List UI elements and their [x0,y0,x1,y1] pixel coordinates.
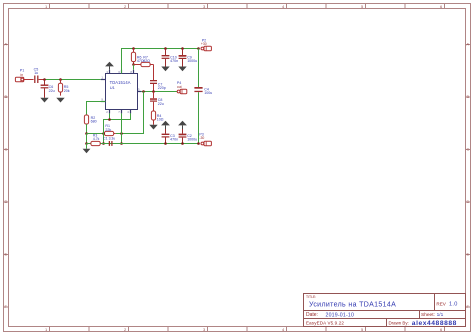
ground below R2 chain [83,149,91,153]
wire P1 to C5 [24,79,34,81]
pin 5 right output [138,91,142,93]
svg-text:1u: 1u [34,71,38,75]
node rail corner at P2 [197,47,200,50]
svg-text:10Ω: 10Ω [157,118,164,122]
capacitor C4 [194,87,202,92]
resistor R7 [134,62,154,66]
frame zone ticks bottom [50,327,445,332]
connector P3 [201,141,211,145]
svg-text:22u: 22u [49,89,55,93]
connector P1 [15,77,23,81]
node input at C6 [43,78,46,81]
svg-text:REV: REV [436,301,446,306]
node pin2 joins staircase [108,118,111,121]
node C9 on rail [181,47,184,50]
capacitor C3 [162,129,170,144]
wire pin7 drop to -rail [121,113,123,143]
svg-text:+30: +30 [201,42,207,46]
frame zone ticks right [466,45,471,308]
wire R2 node to -rail [86,134,88,144]
svg-text:TITLE:: TITLE: [306,295,316,299]
frame zone letters right [467,42,470,310]
svg-text:22k: 22k [105,128,111,132]
node -rail corner at P3 [197,142,200,145]
node input at R5 [59,78,62,81]
node output feedback tap [142,90,145,93]
pin 2 bottom left [109,110,111,114]
svg-text:E: E [467,252,470,257]
wire feedback R2 to R1 [87,133,105,135]
frame zone letters left [5,42,8,310]
wire +V rail [122,49,199,74]
pin 9 left lower [101,101,106,103]
wire input node to U1 pin 1 [45,79,101,81]
svg-text:100u: 100u [204,91,212,95]
wire U1 output to P4 [141,91,177,93]
svg-text:220p: 220p [158,86,166,90]
svg-text:Усилитель на TDA1514A: Усилитель на TDA1514A [309,302,396,309]
pin 1 left input [101,79,106,81]
power flag up arrow above C2 [178,121,187,129]
frame zone numbers bottom [45,327,443,332]
node R6 R7 junction [132,63,135,66]
svg-text:1000u: 1000u [187,59,197,63]
svg-text:470n: 470n [170,138,178,142]
wire U1 pin4 staircase [104,113,131,143]
capacitor C8 [150,92,157,112]
capacitor C1 [109,141,112,146]
capacitor C9 [179,49,187,67]
svg-text:4.7k: 4.7k [93,137,100,141]
svg-text:B: B [5,94,8,99]
wire U1 pin 9 to R2 [87,102,106,116]
node C10 on rail [164,47,167,50]
svg-text:D: D [5,199,8,204]
svg-text:680: 680 [91,120,97,124]
svg-text:Date:: Date: [306,312,318,318]
capacitor C5 [35,76,38,84]
ground below C9 [178,67,186,72]
svg-text:1.0: 1.0 [449,302,458,308]
node R6 on rail [132,47,135,50]
pin 7 bottom middle [121,110,123,114]
wire rail corner to C4 [198,49,200,88]
svg-text:C: C [5,147,8,152]
frame zone ticks top [50,4,445,9]
capacitor C2 [179,129,187,144]
ground below R5 [56,98,64,103]
pin 8 top right [133,70,135,74]
node staircase crosses feedback [102,132,105,135]
svg-text:1000u: 1000u [187,138,197,142]
capacitor C10 [162,49,170,67]
node pin7 at -rail [120,142,123,145]
svg-text:22u: 22u [158,102,164,106]
svg-text:470n: 470n [170,59,178,63]
svg-text:U1: U1 [110,85,116,90]
svg-text:out: out [177,85,182,89]
svg-text:in: in [21,73,24,77]
resistor R3 [91,141,100,145]
capacitor C7 [150,80,157,92]
svg-text:2019-01-10: 2019-01-10 [326,312,355,318]
node staircase at -rail [102,142,105,145]
wire -V rail [87,143,199,145]
power flag up arrow above C3 [161,121,170,129]
node C2 at -rail [181,142,184,145]
svg-text:82Ω: 82Ω [143,59,150,63]
resistor R4 [151,111,155,125]
svg-text:C1 3.3u: C1 3.3u [103,137,115,141]
op-amp U1 TDA1514A body [106,74,138,110]
svg-text:alex4488888: alex4488888 [412,320,457,327]
svg-text:20k: 20k [64,89,70,93]
resistor R5 [58,79,62,95]
wire C5 to input node [39,79,45,81]
node feedback crosses pin7 drop [120,132,123,135]
node R2 chain at -rail [85,142,88,145]
frame zone numbers top [45,4,443,9]
connector P4 [177,89,187,93]
wire R6 junction to U1 pin 8 [133,65,135,70]
resistor R1 [105,131,116,135]
svg-text:C: C [467,147,470,152]
power flag up arrow on U1 pin 3 [105,62,114,70]
svg-text:-30: -30 [199,136,204,140]
wire C4 to -V rail [198,92,200,143]
svg-text:A: A [5,42,8,47]
svg-text:A: A [467,42,470,47]
connector P2 [201,46,211,50]
resistor R2 [84,115,88,134]
ground below R4 [149,125,157,130]
ground below C10 [161,67,169,72]
svg-text:1/1: 1/1 [437,312,444,318]
svg-text:Drawn By:: Drawn By: [389,321,409,326]
pin 6 top middle [121,70,123,74]
title block border [304,294,466,327]
svg-text:B: B [467,94,470,99]
svg-text:E: E [5,252,8,257]
wire pin2 drop [109,113,111,119]
svg-text:Sheet:: Sheet: [421,312,435,318]
pin 3 top left [109,70,111,74]
ground below C6 [40,98,48,103]
node C3 at -rail [164,142,167,145]
wire R1 to output riser [116,92,144,134]
resistor R6 [131,49,135,66]
capacitor C6 [41,80,49,98]
pin 4 bottom right [130,110,132,114]
frame zone ticks left [4,45,9,308]
svg-text:D: D [467,199,470,204]
node R2 bottom feedback [85,132,88,135]
node output at C7 C8 [152,90,155,93]
svg-text:EasyEDA V5.9.22: EasyEDA V5.9.22 [306,321,344,326]
wire R7 to C7 [153,65,155,81]
wire node to ground [86,144,88,149]
